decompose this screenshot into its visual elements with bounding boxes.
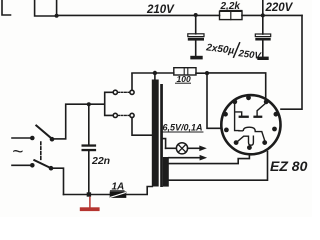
wire (cropped stub top-left) [2,0,11,15]
capacitor C2 (50u) lead [262,15,264,34]
wire (heater line d to tube lower right) [169,152,268,181]
switch coupling (dashed link) [40,142,42,162]
capacitor C1 lower lead [195,41,197,56]
svg-text:EZ 80: EZ 80 [270,158,308,174]
resistor R 100 [174,68,196,75]
wire (heater line c to tube bottom pin) [169,150,250,164]
terminal (tap 1 left circle) [113,90,117,94]
capacitor C 22n plates [82,144,97,151]
wire (tap link dotted 2) [118,114,130,116]
switch S1a blade [36,126,52,140]
capacitor C1 plates [188,34,204,41]
transformer T1 second winding bar [160,84,163,187]
wire (S1b down to bottom rail) [51,168,64,194]
terminal (tap 2 right circle) [130,113,134,117]
wire (tap 2 down to transformer bottom) [132,118,152,136]
terminal (tap 1 right circle) [130,90,134,94]
arrow (heater connection a) [199,146,207,152]
wire (tap link dotted 1) [118,91,130,93]
node (junction 22n top) [87,102,91,106]
label 2.2k [220,1,243,12]
wire (mains stub bottom) [12,164,30,166]
tube pin 6 [274,112,279,117]
wire (lamp line to arrow) [188,147,199,149]
ground (C1) [190,56,202,60]
wire (bottom rail right with step to transformer) [126,187,152,195]
tube anode 1 plate [239,116,249,118]
tube cathode (arch over heater) [239,127,265,142]
tube pin 5 [264,99,269,104]
transformer T1 lead top [154,73,156,80]
node (switch S1a left contact) [30,136,35,141]
wire (secondary top from tap riser to transformer) [132,72,155,74]
switch S1b blade [34,160,51,168]
terminal (tap 2 left circle) [113,113,117,117]
wire (heater line b) [169,157,200,159]
tube anode 1 lead (staircase) [235,103,242,131]
capacitor C2 plates [255,34,270,41]
transformer T1 heater winding [163,157,169,187]
capacitor C2 lower lead [262,41,264,57]
tube pin 1 [223,112,228,117]
wire (to resistor 100) [155,72,174,74]
tube anode 2 lead [257,103,266,116]
svg-text:220V: 220V [265,2,294,14]
wire (top rail right of resistor) [242,14,302,16]
wire (junction to tube top-right anode pin) [207,73,266,101]
node (switch S1b left contact) [30,163,35,168]
label 6.5V/0.1A [163,123,204,133]
wire (lamp line) [166,147,177,149]
node (junction at C1 top) [194,13,198,17]
node (junction at C2 top) [261,13,265,17]
wire (tap 1 riser) [131,74,133,90]
resistor R 2.2k [220,11,243,19]
node (switch S1b right contact) [49,166,54,171]
tube pin 10 [262,140,267,145]
capacitor C1 (50u) lead [195,15,197,33]
wire (tap feeder vertical) [105,92,113,115]
node (junction top-left) [55,14,59,18]
fuse F1 1A [110,192,127,198]
capacitor C 22n lower lead [88,151,90,194]
label 1A [111,182,125,193]
wire (riser from top edge at C2) [262,0,264,15]
wire (bottom rail left) [64,194,110,196]
svg-text:100: 100 [177,74,191,84]
capacitor C 22n upper lead [88,104,90,144]
wire (switch top pole up and to taps) [66,104,105,139]
wire (second riser) [56,0,58,16]
ground (C2) [257,57,268,60]
svg-text:210V: 210V [146,4,175,16]
tube heater [237,136,254,145]
label 2x50u/250V [205,42,262,62]
tube pin 8 [234,140,239,145]
tube anode 2 plate [253,116,262,118]
wire (S1a to riser) [52,138,66,140]
tube pin 7 [272,127,277,132]
svg-text:6,5V/0,1A: 6,5V/0,1A [163,123,203,133]
wire (right side drop from 220V to tube) [281,15,302,109]
svg-text:~: ~ [12,142,23,163]
tube pin 2 [224,127,229,132]
wire (resistor 100 to tube anode pin) [196,73,221,128]
svg-text:22n: 22n [91,155,110,167]
node (junction 22n bottom, square) [87,192,91,196]
ground (red chassis mark) [80,197,100,211]
arrow (heater connection b) [200,155,208,161]
label 100 [176,74,191,84]
tube pin 3 [232,99,237,104]
wire (top rail left section, 210V line) [57,14,220,16]
wire (lamp feeder from winding) [163,139,166,149]
wire (left riser to top rail) [35,0,57,16]
tube pin 4 [246,95,251,100]
node (switch S1a right contact) [50,137,55,142]
lamp La1 6.5V [176,143,187,154]
node (junction at transformer top) [153,71,157,75]
transformer T1 main winding [152,80,159,187]
tube V1 EZ80 envelope [221,95,280,154]
wire (mains stub top) [12,137,30,139]
tube pin 9 [247,145,252,150]
node (junction at 207,73) [205,71,209,75]
